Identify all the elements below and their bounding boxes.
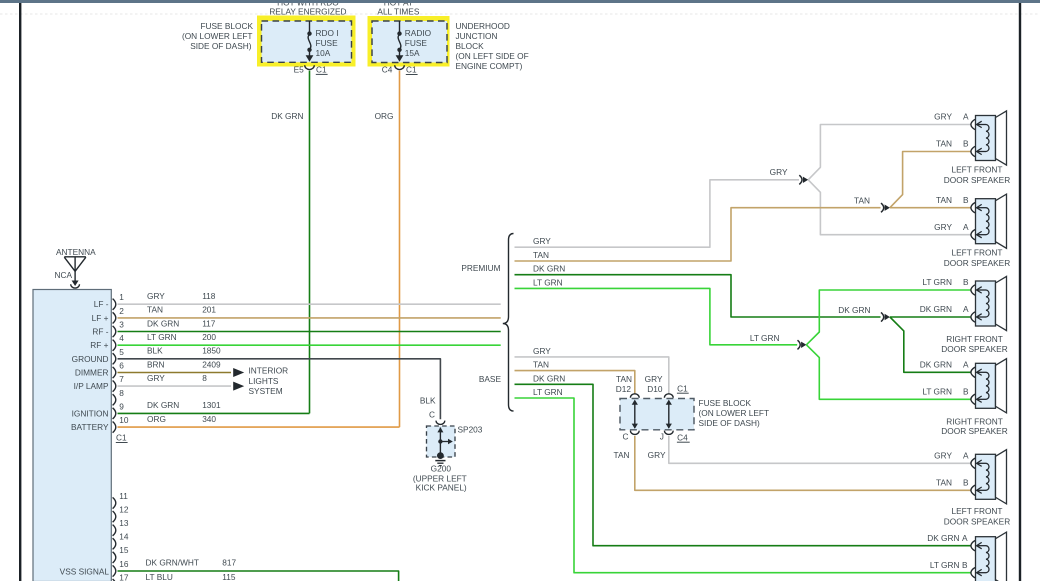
svg-text:(ON LOWER LEFT: (ON LOWER LEFT: [182, 31, 253, 41]
svg-text:14: 14: [119, 532, 129, 542]
svg-text:DK GRN: DK GRN: [271, 111, 303, 121]
svg-text:C: C: [623, 431, 629, 441]
svg-text:A: A: [963, 360, 969, 370]
wire DK GRN base to right speaker: [515, 384, 972, 545]
svg-text:DOOR SPEAKER: DOOR SPEAKER: [941, 344, 1007, 354]
svg-text:A: A: [963, 112, 969, 122]
radio pin 13 bracket: [113, 525, 116, 536]
svg-text:DK GRN/WHT: DK GRN/WHT: [146, 558, 199, 568]
svg-text:DK GRN: DK GRN: [147, 400, 179, 410]
svg-text:B: B: [963, 195, 969, 205]
svg-text:TAN: TAN: [614, 450, 630, 460]
fuse block FB2 cups bottom: [630, 431, 639, 435]
svg-text:2: 2: [119, 306, 124, 316]
svg-text:ALL TIMES: ALL TIMES: [377, 7, 419, 17]
radio pin 5 bracket: [113, 353, 116, 364]
fuse block FB2 terminal D10-J: [668, 401, 670, 429]
svg-text:C4: C4: [382, 65, 393, 75]
svg-text:FUSE: FUSE: [405, 38, 428, 48]
speaker SPK1 left front door: [971, 111, 1007, 165]
wire GRY below FB2 to left front speaker: [669, 436, 972, 463]
svg-text:GRY: GRY: [533, 346, 551, 356]
svg-text:B: B: [963, 139, 969, 149]
svg-text:10: 10: [119, 415, 129, 425]
svg-text:A: A: [963, 222, 969, 232]
svg-text:117: 117: [202, 318, 216, 328]
svg-text:LT GRN: LT GRN: [922, 277, 952, 287]
svg-text:DK GRN: DK GRN: [147, 318, 179, 328]
radio pin 7 bracket: [113, 381, 116, 392]
svg-text:15A: 15A: [405, 48, 420, 58]
svg-text:JUNCTION: JUNCTION: [456, 31, 498, 41]
svg-text:SYSTEM: SYSTEM: [249, 386, 283, 396]
fuse block F2 highlight: [368, 16, 450, 67]
svg-text:GRY: GRY: [533, 236, 551, 246]
svg-text:I/P LAMP: I/P LAMP: [74, 381, 109, 391]
wire BRN 2409 pin6 dimmer: [118, 372, 232, 374]
radio pin 2 bracket: [113, 312, 116, 323]
svg-text:DK GRN: DK GRN: [920, 304, 952, 314]
svg-text:ORG: ORG: [375, 111, 394, 121]
svg-text:BATTERY: BATTERY: [71, 422, 109, 432]
wire DK GRN/WHT 817 pin16 VSS: [118, 571, 399, 581]
svg-text:201: 201: [202, 305, 216, 315]
svg-text:BLOCK: BLOCK: [456, 41, 485, 51]
svg-text:DK GRN: DK GRN: [927, 533, 959, 543]
arrow to interior lights (I/P lamp): [233, 382, 244, 391]
svg-text:TAN: TAN: [936, 195, 952, 205]
svg-text:DK GRN: DK GRN: [838, 305, 870, 315]
svg-text:GROUND: GROUND: [72, 354, 109, 364]
splice SP203 internals: [439, 428, 441, 456]
svg-text:RF -: RF -: [92, 327, 108, 337]
svg-text:B: B: [963, 277, 969, 287]
speaker SPK5 left front door: [971, 450, 1007, 504]
radio pin 15 bracket: [113, 552, 116, 563]
radio pin 3 bracket: [113, 326, 116, 337]
svg-text:17: 17: [119, 572, 129, 581]
antenna symbol: [64, 257, 86, 282]
svg-text:DOOR SPEAKER: DOOR SPEAKER: [944, 516, 1010, 526]
radio pin 11 bracket: [113, 497, 116, 508]
svg-text:200: 200: [202, 332, 216, 342]
wire TAN split branches: [890, 207, 972, 209]
svg-text:7: 7: [119, 374, 124, 384]
svg-text:RDO I: RDO I: [316, 28, 339, 38]
svg-text:9: 9: [119, 401, 124, 411]
svg-text:B: B: [963, 478, 969, 488]
svg-text:G200: G200: [431, 464, 452, 474]
svg-text:FUSE BLOCK: FUSE BLOCK: [200, 21, 253, 31]
connector C1 cup at E5: [305, 65, 315, 69]
wire DK GRN premium: [515, 275, 881, 317]
wire BLK 1850 pin5 ground: [118, 359, 441, 420]
right page border: [1019, 3, 1021, 581]
svg-text:RIGHT FRONT: RIGHT FRONT: [946, 417, 1003, 427]
connector C1 cup at C4: [395, 65, 405, 69]
svg-text:C1: C1: [677, 383, 688, 393]
svg-text:13: 13: [119, 518, 129, 528]
inline connector on GRY: [799, 175, 802, 184]
fuse RDO I FUSE 10A: [309, 21, 311, 33]
fuse block FB2 dashed box: [620, 399, 694, 430]
svg-text:5: 5: [119, 347, 124, 357]
svg-text:GRY: GRY: [147, 291, 165, 301]
wire DK GRN split branches to right front speakers: [890, 316, 972, 318]
radio pin 6 bracket: [113, 367, 116, 378]
svg-text:GRY: GRY: [645, 374, 663, 384]
wire LT GRN premium: [515, 288, 798, 344]
speaker SPK4 right front door: [971, 359, 1007, 413]
wire DK GRN 117 pin3 RF-: [118, 331, 501, 333]
svg-text:LT GRN: LT GRN: [533, 387, 563, 397]
svg-text:D10: D10: [647, 384, 663, 394]
wire GRY premium: [515, 180, 800, 247]
svg-text:LT GRN: LT GRN: [930, 560, 960, 570]
wire GRY split branches to left front speakers: [808, 125, 971, 180]
brace splitting premium/base: [503, 234, 514, 412]
svg-text:4: 4: [119, 333, 124, 343]
wire TAN below FB2 to left front speaker: [635, 436, 972, 490]
svg-text:11: 11: [119, 491, 128, 501]
svg-text:LEFT FRONT: LEFT FRONT: [951, 248, 1002, 258]
svg-text:10A: 10A: [316, 48, 331, 58]
svg-text:12: 12: [119, 504, 129, 514]
wire TAN base: [515, 371, 635, 395]
svg-text:16: 16: [119, 559, 129, 569]
fuse block FB2 cups top: [630, 394, 639, 398]
wire ORG from fuse C4 to pin10: [399, 71, 401, 428]
faint perforation dotted line: [0, 13, 1040, 15]
svg-text:GRY: GRY: [934, 451, 952, 461]
radio unit box: [33, 290, 111, 581]
inline connector on TAN: [881, 203, 884, 212]
svg-text:GRY: GRY: [648, 450, 666, 460]
svg-text:TAN: TAN: [533, 360, 549, 370]
svg-text:IGNITION: IGNITION: [72, 408, 109, 418]
fuse block F1 highlight: [257, 16, 356, 67]
svg-text:DOOR SPEAKER: DOOR SPEAKER: [944, 258, 1010, 268]
svg-text:TAN: TAN: [616, 374, 632, 384]
svg-text:FUSE: FUSE: [316, 38, 339, 48]
svg-text:DK GRN: DK GRN: [533, 264, 565, 274]
svg-text:LF +: LF +: [92, 313, 109, 323]
svg-text:TAN: TAN: [854, 196, 870, 206]
svg-text:C4: C4: [677, 432, 688, 442]
wire LT GRN split branches: [806, 290, 971, 345]
fuse block F2 dashed box: [372, 21, 447, 63]
svg-text:GRY: GRY: [934, 112, 952, 122]
speaker SPK3 right front door: [971, 276, 1007, 330]
svg-text:3: 3: [119, 320, 124, 330]
wire LT GRN base to right speaker: [515, 398, 972, 573]
arrow to interior lights (dimmer): [233, 368, 244, 377]
svg-text:817: 817: [222, 558, 236, 568]
radio pin 8 bracket: [113, 394, 116, 405]
splice SP203 dashed box: [427, 426, 456, 457]
svg-text:8: 8: [202, 373, 207, 383]
svg-text:DOOR SPEAKER: DOOR SPEAKER: [941, 426, 1007, 436]
svg-text:(ON LEFT SIDE OF: (ON LEFT SIDE OF: [456, 51, 529, 61]
inline connector on LT GRN: [798, 340, 801, 349]
svg-text:115: 115: [222, 572, 236, 581]
svg-text:TAN: TAN: [147, 305, 163, 315]
svg-text:B: B: [963, 387, 969, 397]
svg-text:LT GRN: LT GRN: [750, 333, 780, 343]
svg-text:1850: 1850: [202, 346, 221, 356]
svg-text:BASE: BASE: [479, 374, 502, 384]
svg-text:DIMMER: DIMMER: [75, 368, 109, 378]
wire TAN 201 pin2 LF+: [118, 317, 501, 319]
svg-text:RELAY ENERGIZED: RELAY ENERGIZED: [269, 6, 346, 16]
svg-text:INTERIOR: INTERIOR: [249, 366, 289, 376]
svg-text:C1: C1: [406, 65, 417, 75]
svg-text:A: A: [963, 451, 969, 461]
svg-text:8: 8: [119, 388, 124, 398]
svg-text:LIGHTS: LIGHTS: [249, 376, 279, 386]
fuse block F1 dashed box: [262, 21, 352, 62]
svg-text:B: B: [962, 560, 968, 570]
svg-text:FUSE BLOCK: FUSE BLOCK: [699, 398, 752, 408]
svg-text:LT GRN: LT GRN: [533, 277, 563, 287]
svg-text:LT BLU: LT BLU: [146, 572, 173, 581]
svg-text:GRY: GRY: [147, 373, 165, 383]
fuse RADIO FUSE 15A: [399, 21, 401, 33]
svg-text:GRY: GRY: [770, 167, 788, 177]
svg-text:LEFT FRONT: LEFT FRONT: [951, 164, 1002, 174]
speaker SPK2 left front door: [971, 194, 1007, 248]
svg-text:C: C: [429, 409, 435, 419]
svg-text:BRN: BRN: [147, 359, 165, 369]
svg-text:LT GRN: LT GRN: [147, 332, 177, 342]
svg-text:DK GRN: DK GRN: [533, 373, 565, 383]
svg-text:D12: D12: [616, 384, 632, 394]
radio pin 16 bracket: [113, 565, 116, 576]
svg-text:DK GRN: DK GRN: [920, 360, 952, 370]
radio pin 17 bracket: [113, 579, 116, 581]
svg-text:DOOR SPEAKER: DOOR SPEAKER: [944, 175, 1010, 185]
svg-text:TAN: TAN: [936, 478, 952, 488]
svg-text:ANTENNA: ANTENNA: [56, 247, 96, 257]
svg-text:1301: 1301: [202, 400, 221, 410]
top toolbar bar: [0, 0, 1040, 3]
svg-text:GRY: GRY: [934, 222, 952, 232]
svg-text:340: 340: [202, 414, 216, 424]
svg-text:LT GRN: LT GRN: [922, 387, 952, 397]
svg-text:VSS SIGNAL: VSS SIGNAL: [60, 567, 110, 577]
svg-text:J: J: [660, 432, 664, 442]
svg-text:NCA: NCA: [54, 270, 72, 280]
speaker SPK6 (bottom, clipped): [971, 532, 1007, 581]
connector cup at SP203: [436, 421, 445, 425]
wire GRY base: [515, 357, 669, 394]
svg-text:LEFT FRONT: LEFT FRONT: [951, 506, 1002, 516]
svg-text:SIDE OF DASH): SIDE OF DASH): [190, 41, 252, 51]
svg-text:RIGHT FRONT: RIGHT FRONT: [946, 334, 1003, 344]
wire ORG 340 pin10 battery: [118, 426, 400, 428]
svg-text:ORG: ORG: [147, 414, 166, 424]
svg-text:E5: E5: [294, 65, 305, 75]
wire TAN premium: [515, 208, 881, 261]
svg-text:TAN: TAN: [936, 139, 952, 149]
svg-text:PREMIUM: PREMIUM: [461, 263, 500, 273]
radio pin 9 bracket: [113, 408, 116, 419]
svg-text:C1: C1: [316, 65, 327, 75]
svg-text:(ON LOWER LEFT: (ON LOWER LEFT: [699, 408, 770, 418]
svg-text:A: A: [963, 304, 969, 314]
radio pin 10 bracket: [113, 422, 116, 433]
svg-text:RADIO: RADIO: [405, 28, 432, 38]
radio pin 1 bracket: [113, 299, 116, 310]
wire LT GRN 200 pin4 RF+: [118, 344, 501, 346]
svg-text:SIDE OF DASH): SIDE OF DASH): [699, 418, 761, 428]
wire GRY 118 pin1 LF-: [118, 303, 501, 305]
wire DK GRN from fuse E5 to pin9: [309, 71, 311, 414]
radio pin 14 bracket: [113, 538, 116, 549]
svg-text:KICK PANEL): KICK PANEL): [416, 483, 467, 493]
svg-text:C1: C1: [116, 433, 127, 443]
svg-text:SP203: SP203: [458, 424, 483, 434]
svg-text:ENGINE COMPT): ENGINE COMPT): [456, 61, 523, 71]
svg-text:BLK: BLK: [147, 346, 163, 356]
inline connector on DK GRN: [881, 312, 884, 321]
svg-text:UNDERHOOD: UNDERHOOD: [456, 21, 510, 31]
svg-text:RF +: RF +: [90, 340, 108, 350]
svg-text:TAN: TAN: [533, 250, 549, 260]
left page border: [19, 3, 21, 581]
svg-text:1: 1: [119, 292, 124, 302]
svg-text:6: 6: [119, 361, 124, 371]
svg-text:A: A: [962, 533, 968, 543]
fuse block FB2 terminal D12-C: [634, 401, 636, 429]
wire DK GRN 1301 pin9 ignition: [118, 412, 310, 414]
radio pin 12 bracket: [113, 511, 116, 522]
ground G200: [437, 452, 444, 459]
wire GRY 8 pin7 I/P lamp: [118, 385, 232, 387]
svg-text:BLK: BLK: [420, 395, 436, 405]
svg-text:2409: 2409: [202, 359, 221, 369]
radio pin 4 bracket: [113, 340, 116, 351]
svg-text:15: 15: [119, 545, 129, 555]
svg-text:LF -: LF -: [94, 299, 109, 309]
svg-text:118: 118: [202, 291, 216, 301]
